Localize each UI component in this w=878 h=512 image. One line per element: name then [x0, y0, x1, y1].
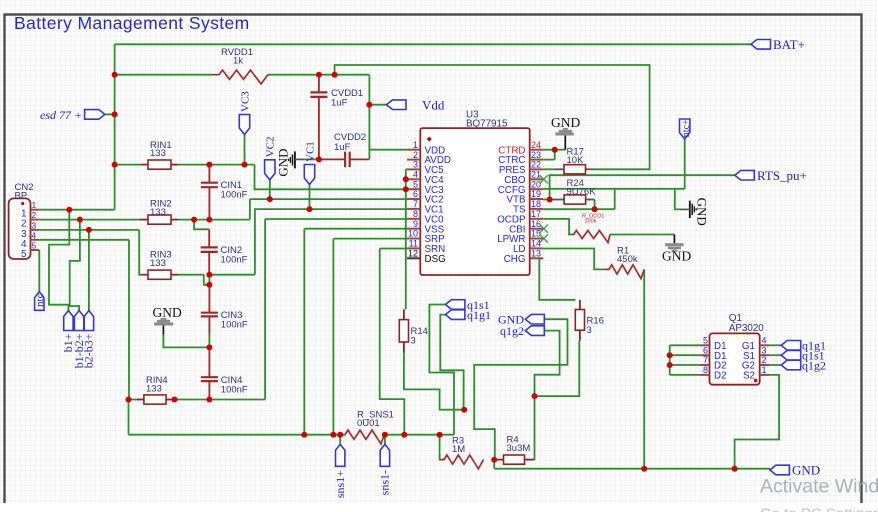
wire Q1 pin6 wire — [670, 354, 700, 356]
wire CIN3 bottom green — [208, 334, 210, 348]
svg-text:S2: S2 — [743, 371, 755, 382]
wire CN2 pin2/RIN2 row — [39, 219, 139, 221]
svg-text:q1g2: q1g2 — [802, 358, 826, 372]
wire sense rail right — [384, 434, 454, 436]
no-connect X pin15 LPWR — [540, 234, 548, 242]
svg-text:1k: 1k — [233, 55, 243, 66]
svg-text:3: 3 — [413, 160, 418, 170]
junction dot 16 — [206, 272, 212, 278]
junction dot 11 — [86, 227, 92, 233]
net flag Vdd — [387, 97, 445, 112]
resistor R_OCD1 — [572, 214, 611, 243]
svg-text:3u3M: 3u3M — [507, 443, 531, 454]
junction dot 5 — [366, 102, 372, 108]
net flag q1s1 left — [445, 298, 489, 312]
wire R_OCD1 to GND3 — [610, 234, 674, 236]
wire R16 bottom link — [535, 341, 580, 397]
junction dot 18 — [126, 397, 132, 403]
net flag RTS_pu+ — [735, 168, 807, 183]
wire CTRC pin23 wire — [543, 159, 555, 161]
svg-text:13: 13 — [531, 249, 541, 259]
net flag esd 77+ — [40, 108, 105, 122]
junction dot 14 — [267, 196, 273, 202]
svg-text:133: 133 — [150, 258, 166, 269]
wire R24 right drop — [594, 200, 596, 210]
wire S2 path — [735, 375, 780, 469]
wire b1-b2+ path — [70, 220, 80, 311]
resistor R16 — [575, 300, 604, 341]
wire Q1 pin8 wire — [670, 374, 700, 376]
wire VC1 flag drop — [309, 185, 311, 210]
junction dot 32 — [532, 393, 538, 399]
wire pin6 jog down — [249, 199, 251, 220]
wire bottom GND rail riser — [493, 460, 495, 469]
net flag ntc — [35, 292, 44, 311]
junction dot 38 — [732, 466, 738, 472]
wire R3 left riser — [440, 435, 444, 460]
net flag sns1- — [378, 444, 392, 495]
svg-text:6: 6 — [703, 345, 708, 355]
svg-text:DSG: DSG — [425, 254, 446, 265]
wire esd stub — [103, 113, 115, 115]
net flag sns1+ — [333, 444, 347, 498]
svg-text:1uF: 1uF — [331, 98, 348, 109]
svg-text:1M: 1M — [452, 444, 465, 455]
no-connect X pin21 CBO — [540, 175, 548, 183]
svg-text:133: 133 — [146, 383, 162, 394]
wire sense rail left — [129, 434, 342, 436]
svg-text:VC3: VC3 — [239, 91, 251, 112]
wire pin4 to RIN4 drop — [128, 240, 130, 400]
wire RVDD1 row right — [268, 74, 335, 76]
resistor R24 — [550, 178, 597, 204]
wire VSS pin9 row — [304, 228, 407, 230]
wire CHG drop — [539, 258, 575, 299]
svg-text:GND: GND — [153, 305, 182, 320]
junction dot 28 — [401, 432, 407, 438]
junction dot 6 — [316, 156, 322, 162]
net flag GND bottom right — [770, 463, 820, 478]
junction dot 37 — [641, 466, 647, 472]
wire BAT+ top rail — [115, 43, 751, 45]
svg-text:100k: 100k — [585, 218, 597, 224]
svg-text:sns1+: sns1+ — [333, 470, 347, 498]
wire VC3 flag drop — [244, 135, 246, 165]
wire TS up to CCFG line — [614, 189, 616, 209]
wire CCFG to earth gnd — [675, 189, 680, 210]
wire CIN2 dot link — [208, 275, 210, 285]
net flag BAT+ — [751, 37, 805, 52]
wire TS pin18 row — [543, 208, 615, 210]
svg-text:GND: GND — [662, 249, 691, 264]
svg-text:24: 24 — [531, 140, 541, 150]
junction dot 40 — [667, 362, 673, 368]
wire VTB pin19 stub wire — [543, 199, 549, 201]
svg-text:3: 3 — [32, 220, 37, 230]
svg-text:VC2: VC2 — [265, 137, 277, 158]
svg-text:5: 5 — [21, 249, 27, 260]
svg-text:16: 16 — [531, 219, 541, 229]
svg-text:8: 8 — [703, 365, 708, 375]
wire Vdd riser — [368, 75, 370, 160]
capacitor CIN2 — [201, 229, 248, 274]
wire b1+ path — [49, 210, 69, 311]
net flag q1g1 left — [445, 308, 491, 322]
ground GND left CIN3 — [153, 305, 182, 335]
wire pin3 stub wire — [406, 168, 407, 170]
wire CN2 pin3 row — [39, 229, 139, 231]
net flag q1g1 at Q1 — [781, 339, 826, 353]
wire Q1 G2 wire — [770, 364, 781, 366]
wire OCDP wire — [543, 219, 571, 235]
svg-text:6: 6 — [413, 189, 418, 199]
svg-text:100nF: 100nF — [221, 385, 248, 396]
net flag b2-b3+ — [82, 311, 96, 369]
svg-text:Vdd: Vdd — [422, 97, 445, 112]
wire RIN1 row left — [115, 164, 141, 166]
svg-text:Battery Management System: Battery Management System — [14, 13, 250, 33]
junction dot 4 — [332, 72, 338, 78]
svg-text:3: 3 — [587, 325, 592, 336]
wire RIN4 row right — [173, 399, 265, 401]
junction dot 3 — [316, 72, 322, 78]
wire VC345 down to R14 — [405, 189, 407, 309]
svg-text:9U76K: 9U76K — [567, 186, 597, 197]
wire qls1 path — [429, 305, 454, 435]
svg-text:BAT+: BAT+ — [773, 37, 805, 52]
resistor RIN4 — [137, 375, 173, 404]
wire Q1 G1 wire — [770, 344, 781, 346]
wire pin4 stub wire — [406, 178, 407, 180]
junction dot 17 — [206, 282, 212, 288]
svg-text:5: 5 — [32, 241, 37, 251]
resistor RVDD1 — [212, 47, 268, 84]
svg-text:22: 22 — [531, 160, 541, 170]
junction dot 29 — [437, 432, 443, 438]
wire R4 right link — [534, 396, 536, 460]
capacitor CIN4 — [201, 347, 248, 399]
junction dot 23 — [403, 186, 409, 192]
svg-text:133: 133 — [150, 207, 166, 218]
svg-text:ntc+: ntc+ — [681, 119, 692, 137]
wire Q1 D-pins tie — [669, 345, 671, 375]
wire CTRD-CTRC tie — [554, 150, 556, 160]
svg-text:AP3020: AP3020 — [729, 323, 764, 334]
svg-text:VC1: VC1 — [304, 141, 316, 162]
capacitor CIN1 — [201, 165, 248, 220]
svg-text:GND: GND — [695, 198, 710, 226]
wire pin3 to RIN3 drop — [139, 230, 141, 275]
wire SRN pin11 row — [380, 248, 407, 250]
capacitor CVDD1 — [310, 76, 363, 159]
wire VDD pin1 — [369, 149, 407, 151]
svg-text:1: 1 — [762, 365, 767, 375]
wire VC0 pin8 row — [265, 218, 407, 220]
svg-text:11: 11 — [409, 239, 418, 249]
svg-text:100nF: 100nF — [221, 320, 248, 331]
junction dot 7 — [206, 162, 212, 168]
no-connect X pin16 CBI — [540, 225, 548, 233]
svg-text:b2-b3+: b2-b3+ — [82, 333, 96, 368]
net flag qlg2 mid — [500, 324, 544, 338]
wire qlg2 path — [535, 331, 560, 397]
wire CN2 pin5 to ntc — [38, 250, 40, 292]
resistor R17 — [554, 147, 594, 174]
capacitor CVDD2 — [320, 132, 370, 167]
svg-text:4: 4 — [762, 336, 767, 346]
junction dot 25 — [330, 432, 336, 438]
net flag b1+ — [61, 311, 75, 353]
wire RVDD1 row left — [115, 74, 212, 76]
wire RIN3 jog — [204, 275, 210, 285]
junction dot 39 — [667, 352, 673, 358]
junction dot 9 — [66, 207, 72, 213]
wire CCFG pin20 line — [543, 188, 685, 190]
wire VC0 to RIN4 drop — [264, 219, 266, 400]
svg-text:10: 10 — [408, 229, 418, 239]
ground earth GND right of TS — [680, 198, 710, 226]
svg-text:2: 2 — [32, 210, 37, 220]
wire top rail to R17 — [335, 65, 650, 169]
connector CN2 BP — [9, 182, 40, 260]
junction dot 31 — [491, 457, 497, 463]
svg-text:100nF: 100nF — [221, 190, 248, 201]
svg-text:1uF: 1uF — [334, 142, 351, 153]
wire R1 drop — [643, 269, 645, 468]
svg-text:18: 18 — [531, 199, 541, 209]
net flag GND mid — [498, 313, 544, 327]
svg-text:q1g2: q1g2 — [500, 324, 524, 338]
wire Q1 pin5 wire — [670, 344, 700, 346]
svg-text:GND: GND — [276, 149, 291, 177]
resistor R1 — [605, 246, 645, 279]
svg-text:100nF: 100nF — [221, 255, 248, 266]
wire VC345 tie vertical — [405, 169, 407, 189]
svg-text:GND: GND — [551, 115, 580, 130]
resistor R3 — [440, 436, 484, 469]
svg-text:CHG: CHG — [504, 254, 526, 265]
net flag VC1 — [304, 141, 316, 184]
transistor Q1 AP3020 — [699, 313, 770, 385]
watermark strip — [0, 504, 878, 512]
svg-text:23: 23 — [531, 150, 541, 160]
net flag q1s1 at Q1 — [781, 349, 824, 363]
resistor RIN1 — [141, 140, 178, 169]
svg-text:5: 5 — [703, 336, 708, 346]
wire RTS line — [550, 175, 735, 199]
svg-text:7: 7 — [703, 355, 708, 365]
wire VSS drop — [303, 229, 305, 435]
net flag b1-b2+ — [72, 311, 86, 369]
wire GND4 to cap chain — [163, 335, 209, 348]
junction dot 30 — [461, 407, 467, 413]
svg-text:4: 4 — [413, 170, 418, 180]
junction dot 35 — [592, 206, 598, 212]
svg-text:10K: 10K — [567, 155, 585, 166]
junction dot 1 — [112, 111, 118, 117]
resistor R_SNS1 — [341, 410, 394, 444]
svg-text:20: 20 — [531, 179, 541, 189]
svg-text:4: 4 — [32, 230, 37, 240]
resistor RIN3 — [142, 250, 179, 280]
wire VC1 pin7 riser — [255, 209, 407, 275]
svg-text:450k: 450k — [617, 254, 638, 265]
wire R14 bottom jog — [404, 353, 464, 410]
net flag VC2 — [265, 137, 277, 180]
wire RIN4 row left — [129, 399, 138, 401]
resistor R4 — [494, 435, 534, 465]
junction dot 22 — [403, 176, 409, 182]
svg-text:21: 21 — [531, 170, 541, 180]
wire RIN3 row right — [178, 274, 204, 276]
svg-text:5: 5 — [413, 179, 418, 189]
resistor R14 — [399, 309, 428, 352]
svg-text:1: 1 — [32, 200, 37, 210]
wire SRN drop — [380, 249, 405, 435]
svg-text:D2: D2 — [714, 371, 727, 382]
svg-text:2: 2 — [413, 150, 418, 160]
svg-text:9: 9 — [413, 219, 418, 229]
junction dot 13 — [206, 217, 212, 223]
wire VC2 pin6 row — [250, 198, 407, 200]
svg-text:14: 14 — [531, 239, 541, 249]
wire sns1- stub — [384, 435, 386, 445]
capacitor CIN3 — [201, 285, 248, 334]
net flag VC3 — [239, 91, 251, 135]
op-amp U3 BQ77915 — [407, 110, 543, 276]
junction dot 12 — [191, 217, 197, 223]
wire GND mid path — [474, 319, 567, 460]
junction dot 19 — [172, 397, 178, 403]
wire b2-b3+ path — [88, 230, 90, 311]
junction dot 36 — [112, 72, 118, 78]
svg-text:133: 133 — [150, 148, 166, 159]
svg-text:sns1-: sns1- — [378, 470, 392, 495]
junction dot 20 — [206, 397, 212, 403]
wire left vertical esd/RIN1 — [114, 44, 116, 209]
wire CN2 pin1 row — [39, 209, 114, 211]
wire CTRD pin24 wire — [543, 149, 565, 151]
wire RIN1 jog to VC345 — [255, 165, 406, 190]
resistor RIN2 — [139, 199, 178, 225]
wire sense rail riser — [128, 400, 130, 435]
wire VC2 flag drop — [269, 180, 271, 199]
wire PRES pin22 wire — [543, 168, 554, 170]
junction dot 10 — [77, 217, 83, 223]
junction dot 24 — [301, 432, 307, 438]
svg-text:0U01: 0U01 — [357, 418, 380, 429]
junction dot 21 — [206, 344, 212, 350]
svg-text:3: 3 — [762, 345, 767, 355]
svg-text:Activate Windows: Activate Windows — [760, 476, 878, 498]
wire bottom GND rail — [494, 468, 770, 470]
wire RIN2 row right — [178, 219, 250, 221]
wire AVDD gnd lead — [304, 158, 320, 160]
svg-text:BP: BP — [15, 191, 28, 202]
svg-text:17: 17 — [531, 209, 541, 219]
junction dot 33 — [552, 147, 558, 153]
svg-text:1: 1 — [413, 140, 418, 150]
svg-text:q1g1: q1g1 — [467, 308, 491, 322]
svg-text:BQ77915: BQ77915 — [466, 119, 508, 130]
wire Vdd flag stub — [369, 104, 386, 106]
svg-text:RTS_pu+: RTS_pu+ — [757, 168, 807, 183]
junction dot 2 — [112, 162, 118, 168]
wire LD row — [543, 249, 604, 270]
wire qlg1 path — [440, 315, 463, 410]
svg-text:15: 15 — [531, 229, 541, 239]
ground earth GND near VC1 — [276, 149, 304, 177]
ground GND right of R1 — [662, 235, 691, 264]
junction dot 8 — [242, 162, 248, 168]
svg-text:12: 12 — [408, 249, 418, 259]
wire SRP pin10 row — [333, 238, 407, 240]
svg-text:esd 77 +: esd 77 + — [40, 108, 82, 122]
wire CIN2 feed jog — [194, 220, 209, 230]
junction dot 27 — [382, 432, 388, 438]
wire SRP drop — [332, 239, 334, 435]
wire RIN1 row right — [178, 164, 255, 166]
junction dot 15 — [307, 206, 313, 212]
wire CN2 pin4 row — [39, 239, 129, 241]
wire ntc+ drop — [684, 139, 686, 189]
svg-text:19: 19 — [531, 189, 541, 199]
wire Q1 pin7 wire — [670, 364, 700, 366]
svg-text:7: 7 — [413, 199, 418, 209]
svg-text:Go to PC Settings to activ: Go to PC Settings to activ — [760, 506, 878, 512]
ground GND above U3 — [551, 115, 580, 150]
wire sns1+ stub — [339, 435, 341, 445]
svg-text:3: 3 — [411, 336, 416, 347]
junction dot 34 — [547, 197, 553, 203]
wire Q1 S1 wire — [770, 354, 781, 356]
junction dot 26 — [337, 432, 343, 438]
net flag ntc+ — [680, 119, 692, 139]
svg-text:8: 8 — [413, 209, 418, 219]
net flag q1g2 at Q1 — [781, 358, 826, 372]
wire RVDD1 to Vdd riser — [335, 74, 370, 76]
svg-text:ntc: ntc — [34, 293, 46, 307]
svg-text:2: 2 — [762, 355, 767, 365]
wire RIN3 row to VC1 riser — [209, 274, 255, 276]
